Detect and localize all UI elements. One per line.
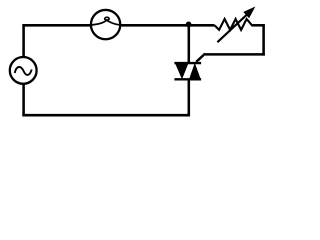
wire left vertical lower [22, 85, 25, 117]
wire right vertical [262, 24, 265, 55]
triac bottom bar [174, 78, 201, 80]
wire triac bottom lead [188, 79, 191, 117]
ac source circle [10, 57, 37, 84]
wire top-left horizontal [22, 24, 90, 27]
lamp circle [91, 10, 120, 39]
wire triac top lead [188, 24, 191, 64]
variable resistor zigzag [215, 19, 253, 30]
variable resistor arrow shaft [217, 12, 249, 42]
lamp filament with loop [90, 17, 121, 25]
wire top middle horizontal [120, 24, 214, 27]
wire left vertical upper [22, 24, 25, 56]
wire top-right horizontal [252, 24, 265, 27]
triac top bar [174, 62, 201, 64]
ac source sine wave [15, 67, 32, 75]
variable resistor arrowhead [244, 8, 254, 18]
wire bottom horizontal [22, 114, 190, 117]
junction dot node [186, 22, 192, 28]
triac right triangle (points up) [189, 63, 201, 81]
triac left triangle (points down) [175, 62, 189, 79]
wire gate horizontal [203, 53, 265, 56]
wire gate diagonal [196, 55, 203, 62]
